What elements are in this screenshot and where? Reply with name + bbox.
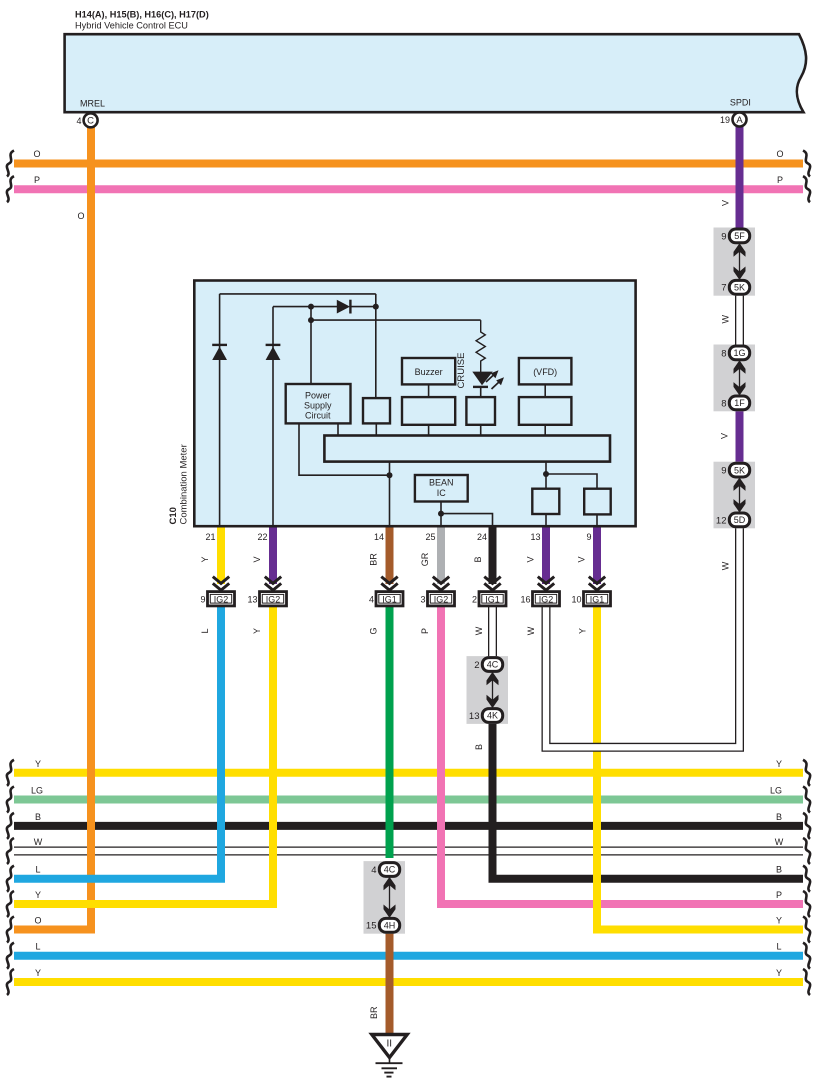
connector pair 4C/4K	[467, 656, 509, 724]
svg-text:P: P	[34, 175, 40, 185]
bus B (black) right portion row 5	[493, 722, 804, 879]
svg-text:V: V	[721, 200, 731, 206]
power supply circuit block U2	[286, 384, 351, 423]
svg-text:Y: Y	[578, 628, 588, 634]
svg-text:V: V	[526, 556, 536, 562]
svg-text:P: P	[776, 890, 782, 900]
svg-text:Combination Meter: Combination Meter	[179, 444, 190, 524]
svg-text:W: W	[775, 837, 784, 847]
svg-text:4C: 4C	[487, 660, 499, 670]
svg-text:Y: Y	[776, 968, 782, 978]
svg-text:Circuit: Circuit	[305, 411, 331, 421]
svg-text:Y: Y	[35, 968, 41, 978]
svg-text:Y: Y	[35, 890, 41, 900]
svg-text:P: P	[777, 175, 783, 185]
svg-text:L: L	[200, 628, 210, 633]
svg-text:9: 9	[721, 231, 726, 242]
wire internal LED feed horizontal	[311, 319, 481, 321]
svg-text:Y: Y	[200, 556, 210, 562]
svg-text:IC: IC	[437, 488, 447, 498]
buzzer block	[402, 358, 455, 384]
svg-text:W: W	[526, 626, 536, 635]
svg-text:4K: 4K	[487, 711, 498, 721]
wire W between connectors 5K and 1G right column	[735, 293, 744, 348]
svg-text:II: II	[387, 1039, 393, 1050]
svg-text:8: 8	[721, 398, 726, 409]
svg-text:O: O	[776, 149, 783, 159]
svg-text:9: 9	[721, 466, 726, 477]
label Y left row 6	[7, 891, 14, 917]
svg-text:(VFD): (VFD)	[533, 367, 557, 377]
svg-text:W: W	[474, 626, 484, 635]
svg-text:8: 8	[721, 348, 726, 359]
connector pair 4C/4H	[364, 861, 406, 934]
svg-text:P: P	[420, 628, 430, 634]
svg-text:Supply: Supply	[304, 401, 332, 411]
junction connector IG2 pin 13	[265, 577, 281, 584]
bus W (white) horizontal full width	[14, 847, 803, 856]
svg-text:IG2: IG2	[266, 594, 281, 604]
sub box B1 (next to PSC)	[363, 398, 390, 423]
svg-text:IG2: IG2	[539, 594, 554, 604]
svg-text:1F: 1F	[734, 398, 745, 408]
svg-text:BR: BR	[369, 553, 379, 566]
connector pair 5F/5K	[714, 228, 756, 296]
bus B (horizontal, y=825.9)	[14, 822, 803, 830]
bus LG (horizontal, y=799.5)	[14, 796, 803, 804]
combination meter C10 box	[194, 281, 635, 527]
wire internal second horizontal (diode row)	[273, 306, 337, 308]
svg-text:14: 14	[374, 532, 384, 542]
svg-text:Power: Power	[305, 391, 331, 401]
svg-text:H14(A), H15(B), H16(C), H17(D): H14(A), H15(B), H16(C), H17(D)	[75, 10, 209, 20]
svg-text:4H: 4H	[384, 921, 396, 931]
pin 4 C (MREL)	[84, 113, 98, 127]
label L left row 5	[7, 866, 14, 892]
svg-text:W: W	[721, 315, 731, 324]
svg-text:22: 22	[257, 532, 267, 542]
svg-text:IG1: IG1	[382, 594, 397, 604]
bus P (pink) right portion row 6	[441, 606, 803, 904]
sub box D (pin 9)	[584, 489, 611, 515]
wire W from IG2(16) down, right and up to connector 5D (U route)	[546, 527, 740, 747]
svg-text:B: B	[474, 744, 484, 750]
wire Y from meter pin 21 to connector	[217, 526, 225, 584]
connector pair 5K/5D	[714, 462, 756, 529]
svg-text:A: A	[736, 115, 743, 126]
wire BEAN IC to pins 25/24 with junction	[440, 502, 442, 528]
svg-text:O: O	[77, 211, 84, 221]
wire internal right vertical to sub box	[375, 294, 377, 398]
svg-text:Buzzer: Buzzer	[415, 367, 443, 377]
svg-text:V: V	[577, 556, 587, 562]
sub box B4 (below VFD)	[519, 397, 572, 425]
LED CRUISE (down triangle with bar)	[472, 372, 493, 386]
svg-text:V: V	[720, 433, 730, 439]
svg-text:9: 9	[200, 594, 205, 604]
svg-text:Y: Y	[35, 759, 41, 769]
svg-text:3: 3	[420, 594, 425, 604]
svg-text:4: 4	[371, 865, 376, 876]
svg-text:Y: Y	[252, 628, 262, 634]
svg-text:24: 24	[477, 532, 487, 542]
resistor (zigzag) feeding cruise LED	[476, 320, 485, 372]
svg-text:5F: 5F	[734, 231, 745, 241]
wire internal PSC top vertical	[310, 307, 312, 384]
bus Y (yellow) right portion row 7	[597, 606, 803, 930]
junction node at diode output	[373, 304, 379, 310]
main gauge bar (long box)	[324, 436, 610, 462]
svg-text:IG2: IG2	[214, 594, 229, 604]
svg-text:2: 2	[472, 594, 477, 604]
svg-text:16: 16	[520, 594, 530, 604]
svg-text:Hybrid Vehicle Control ECU: Hybrid Vehicle Control ECU	[75, 21, 188, 31]
bus Y (horizontal, y=772.8)	[14, 769, 803, 777]
ECU H14/H15/H16/H17 Hybrid Vehicle Control ECU box	[65, 34, 806, 112]
PSC stub to main bar	[337, 423, 339, 436]
svg-text:BR: BR	[369, 1006, 379, 1019]
junction connector IG1 pin 4	[381, 577, 397, 584]
svg-text:13: 13	[469, 711, 480, 722]
label O left row 7	[7, 917, 14, 943]
wire internal pin21 vertical	[219, 294, 221, 527]
svg-text:4C: 4C	[384, 865, 396, 875]
svg-text:Y: Y	[776, 759, 782, 769]
svg-text:12: 12	[716, 515, 727, 526]
svg-text:21: 21	[205, 532, 215, 542]
svg-text:O: O	[34, 916, 41, 926]
svg-text:C: C	[87, 116, 94, 127]
sub box C (pin 13)	[532, 489, 559, 514]
svg-text:2: 2	[474, 660, 479, 671]
junction node LED feed branch	[308, 317, 314, 323]
diode D1 (upward) on pin21 line	[212, 347, 227, 360]
wire G green from IG1(4) down to connector 4C bottom	[386, 606, 394, 858]
bus L (blue) full width row 8	[14, 952, 803, 960]
svg-text:CRUISE: CRUISE	[456, 353, 467, 389]
pin 19 A (SPDI)	[733, 113, 747, 127]
svg-text:13: 13	[247, 594, 257, 604]
wire V from meter pin 9 to connector	[593, 526, 601, 584]
wire BR from meter pin 14 to connector	[386, 526, 394, 584]
svg-text:10: 10	[571, 594, 581, 604]
svg-text:W: W	[721, 561, 731, 570]
junction connector IG1 pin 10	[589, 577, 605, 584]
diode D2 (upward) on pin22 line	[266, 347, 281, 360]
svg-text:5K: 5K	[734, 283, 745, 293]
svg-text:Y: Y	[776, 916, 782, 926]
wire B from meter pin 24 to connector	[489, 526, 497, 584]
svg-text:C10: C10	[168, 507, 179, 524]
junction connector IG1 pin 2	[484, 577, 500, 584]
svg-text:19: 19	[720, 115, 730, 125]
wire long box to pin 14 with junction	[389, 462, 391, 527]
svg-text:7: 7	[721, 283, 726, 294]
svg-text:5K: 5K	[734, 465, 745, 475]
VFD block	[519, 358, 572, 384]
svg-text:V: V	[252, 556, 262, 562]
wire L blue from IG2(9) to left bus row 5	[14, 606, 221, 879]
svg-text:SPDI: SPDI	[730, 98, 751, 108]
wire V from meter pin 13 to connector	[542, 526, 550, 584]
svg-text:L: L	[776, 942, 781, 952]
svg-text:13: 13	[530, 532, 540, 542]
svg-text:L: L	[35, 942, 40, 952]
bus Y (yellow) full width row 9	[14, 978, 803, 986]
svg-text:15: 15	[366, 921, 377, 932]
junction connector IG2 pin 16	[538, 577, 554, 584]
diode D3 (rightward) on second horizontal	[337, 300, 350, 314]
svg-text:G: G	[369, 627, 379, 634]
svg-text:B: B	[776, 812, 782, 822]
svg-text:5D: 5D	[734, 515, 746, 525]
ground II	[372, 1035, 407, 1058]
LED emission arrow 1	[486, 375, 494, 383]
svg-text:O: O	[33, 149, 40, 159]
wire Y yellow from IG2(13) to left bus row 6	[14, 606, 273, 904]
svg-text:B: B	[35, 812, 41, 822]
wire V purple from SPDI pin down to connector 5F	[736, 127, 744, 232]
svg-text:4: 4	[369, 594, 374, 604]
svg-text:B: B	[776, 865, 782, 875]
junction node PSC/diode row	[308, 304, 314, 310]
wire O orange from MREL pin down and left to bus row 7	[14, 127, 91, 930]
svg-text:IG2: IG2	[434, 594, 449, 604]
bus P (pink) top, full width	[14, 185, 803, 193]
svg-text:IG1: IG1	[590, 594, 605, 604]
svg-text:W: W	[34, 837, 43, 847]
svg-text:LG: LG	[770, 786, 782, 796]
svg-text:1G: 1G	[733, 348, 745, 358]
svg-text:B: B	[473, 556, 483, 562]
wire V purple between connectors 1F and 5K	[736, 409, 744, 464]
sub box B3 (below LED)	[466, 397, 495, 425]
wire GR from meter pin 25 to connector	[437, 526, 445, 584]
svg-text:MREL: MREL	[80, 99, 105, 109]
wire internal pin22 vertical	[272, 307, 274, 527]
svg-text:9: 9	[586, 532, 591, 542]
wire BR brown from connector 4H down to ground	[386, 931, 394, 1036]
wire V from meter pin 22 to connector	[269, 526, 277, 584]
wire W from IG1(2) down to connector 4C	[488, 606, 497, 660]
svg-text:4: 4	[76, 116, 81, 126]
svg-text:L: L	[35, 865, 40, 875]
svg-text:GR: GR	[420, 552, 430, 566]
LED emission arrow 2	[492, 382, 500, 390]
sub box B2 (below buzzer)	[402, 397, 455, 425]
wire internal top horizontal	[220, 293, 376, 295]
svg-text:LG: LG	[31, 786, 43, 796]
wire long box to boxes C/D with junction	[545, 462, 547, 489]
connector pair 1G/1F	[714, 345, 756, 412]
junction connector IG2 pin 9	[213, 577, 229, 584]
junction connector IG2 pin 3	[433, 577, 449, 584]
BEAN IC block	[415, 475, 468, 502]
PSC wire to pin 14 line	[299, 423, 390, 475]
bus O (orange) top, full width	[14, 160, 803, 168]
svg-text:25: 25	[425, 532, 435, 542]
svg-text:BEAN: BEAN	[429, 478, 454, 488]
svg-text:IG1: IG1	[485, 594, 500, 604]
